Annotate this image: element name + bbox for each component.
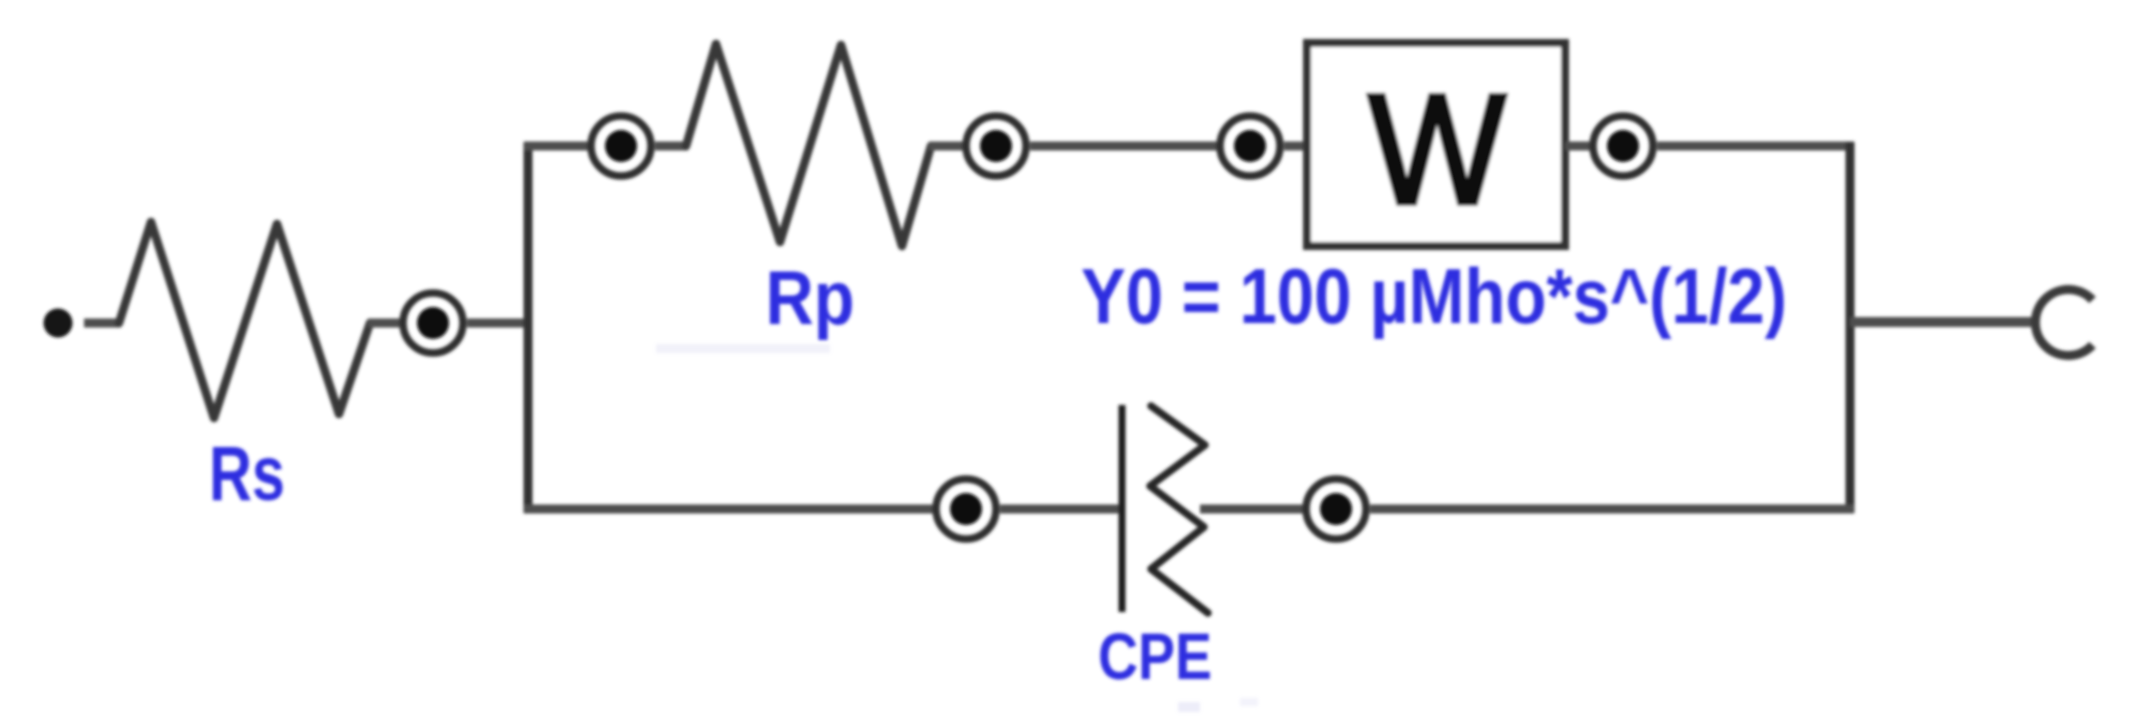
wire	[1284, 142, 1310, 151]
wire (bottom branch left)	[524, 505, 933, 514]
resistor Rp	[686, 44, 931, 246]
node (top branch left)	[591, 116, 651, 176]
wire	[1200, 505, 1303, 514]
wire	[1565, 142, 1590, 151]
svg-text:W: W	[1369, 63, 1506, 237]
svg-text:Rp: Rp	[766, 256, 855, 341]
wire (top branch, to node)	[524, 142, 588, 151]
wire	[368, 319, 400, 328]
wire (output)	[1850, 317, 2036, 327]
node (after CPE)	[1306, 479, 1366, 539]
node (after Warburg)	[1593, 116, 1653, 176]
CPE element (plate bar)	[1119, 405, 1126, 612]
svg-text:Y0 = 100 µMho*s^(1/2): Y0 = 100 µMho*s^(1/2)	[1081, 252, 1787, 340]
node (before Warburg)	[1220, 116, 1280, 176]
wire (left junction vertical)	[524, 142, 533, 513]
faint artifact below CPE	[1178, 702, 1200, 712]
resistor Rs	[119, 222, 370, 418]
wire	[1000, 505, 1122, 514]
faint artifact below Rp	[656, 344, 830, 353]
wire (bottom branch right)	[1370, 505, 1854, 514]
wire	[84, 319, 121, 328]
CPE element (zigzag plate)	[1150, 406, 1208, 613]
wire	[467, 319, 532, 328]
terminal dot (left input node)	[44, 309, 73, 338]
wire	[1030, 142, 1217, 151]
node (after Rp)	[966, 116, 1026, 176]
node (before CPE)	[936, 479, 996, 539]
wire	[655, 142, 688, 151]
svg-text:Rs: Rs	[209, 431, 285, 517]
wire	[1657, 142, 1854, 151]
wire	[929, 142, 963, 151]
wire (right junction vertical)	[1846, 142, 1855, 513]
Warburg element W (box)	[1307, 43, 1565, 246]
terminal C (open circle, right output)	[2035, 290, 2092, 356]
svg-text:CPE: CPE	[1098, 619, 1212, 693]
node (after Rs)	[403, 293, 463, 353]
